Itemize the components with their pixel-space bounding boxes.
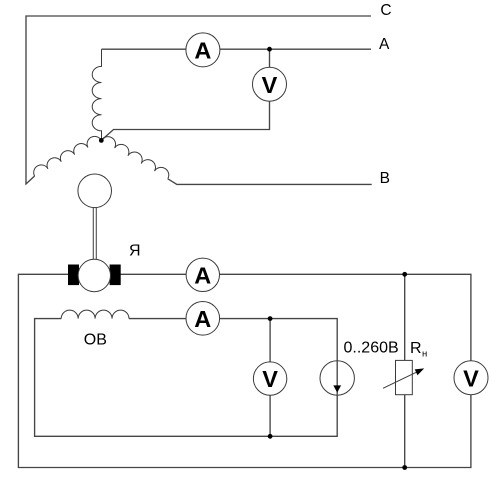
- node dot top rail: [402, 272, 407, 277]
- svg-text:A: A: [194, 38, 211, 64]
- node dot star point: [99, 138, 104, 143]
- wire Rn branch: [404, 274, 406, 467]
- svg-text:A: A: [194, 262, 211, 288]
- coil L3 stator phase lower-right: [101, 137, 168, 179]
- voltmeter V top (phase): [253, 67, 287, 101]
- wire V2 branch: [269, 319, 271, 437]
- wire V1 branch to star point: [101, 49, 269, 140]
- svg-text:A: A: [194, 306, 211, 332]
- armature circle: [78, 259, 110, 291]
- ammeter A top (line A): [186, 33, 220, 67]
- variable resistor Rn: [383, 360, 424, 394]
- svg-text:A: A: [379, 36, 390, 53]
- coil L1 stator phase vertical: [92, 49, 101, 140]
- node dot field bottom: [268, 434, 273, 439]
- shaft double line: [93, 208, 96, 260]
- node dot bottom rail: [402, 465, 407, 470]
- wire line A: [102, 48, 372, 50]
- svg-text:Я: Я: [129, 243, 141, 260]
- wire outer loop rectangle: [18, 274, 471, 467]
- svg-text:н: н: [422, 349, 427, 360]
- wire field winding loop: [35, 319, 338, 437]
- node dot line A: [267, 47, 272, 52]
- svg-text:0..260В: 0..260В: [344, 340, 399, 357]
- svg-text:V: V: [262, 72, 278, 98]
- current source 0..260V: [320, 361, 354, 395]
- wire line C with left drop: [26, 16, 371, 184]
- svg-text:V: V: [463, 365, 479, 391]
- svg-text:ОВ: ОВ: [84, 332, 107, 349]
- ammeter A armature circuit: [186, 258, 219, 291]
- svg-text:B: B: [380, 170, 390, 187]
- svg-text:V: V: [262, 366, 278, 392]
- coil L2 stator phase lower-left: [34, 136, 102, 176]
- voltmeter V field circuit: [253, 362, 286, 395]
- coil OV field winding: [61, 310, 129, 318]
- svg-text:C: C: [380, 2, 391, 19]
- svg-text:R: R: [410, 340, 422, 357]
- voltmeter V armature circuit: [454, 361, 488, 395]
- brush right: [110, 265, 121, 286]
- prime mover circle: [78, 174, 112, 208]
- wire line B: [168, 179, 372, 185]
- node dot field line: [268, 316, 273, 321]
- ammeter A field circuit: [186, 302, 220, 336]
- brush left: [68, 265, 79, 286]
